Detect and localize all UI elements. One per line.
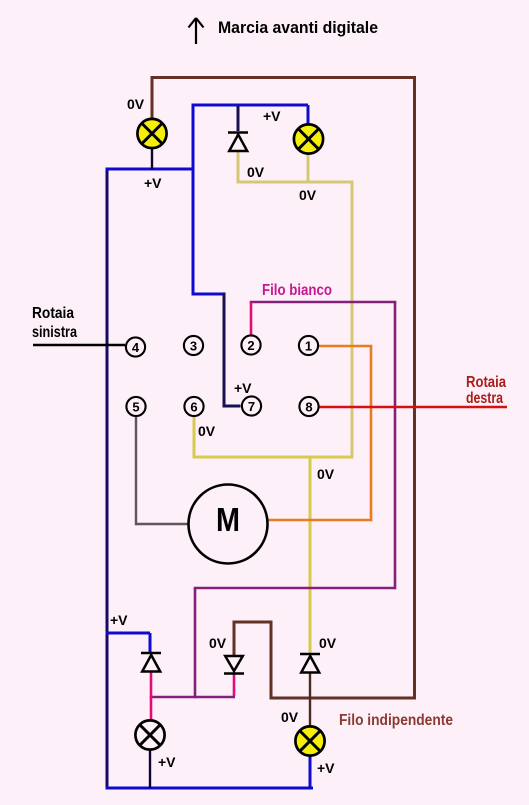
- wire brown top horizontal: [151, 76, 417, 79]
- svg-text:+V: +V: [263, 108, 281, 124]
- lamp L4 bottom-right: [295, 726, 324, 755]
- wire diode2 top stub: [149, 633, 152, 652]
- diode D3 middle pointing down: [224, 656, 244, 674]
- lamp L1 top-left: [137, 119, 166, 148]
- wire brown diode3 top stub: [233, 621, 236, 657]
- title arrow: [189, 18, 204, 44]
- pin 5: [126, 397, 145, 416]
- motor M: [189, 485, 268, 564]
- wire tan lamp2 bottom stub: [307, 155, 310, 182]
- wire purple middle horizontal: [194, 587, 395, 590]
- svg-text:2: 2: [247, 338, 254, 353]
- lamp L3 bottom-left white: [135, 720, 164, 749]
- pin 8: [299, 397, 318, 416]
- wire black rotaia sinistra: [33, 344, 125, 346]
- wire red rotaia destra: [319, 406, 507, 409]
- diode D4 bottom-right: [300, 654, 320, 673]
- lamp L2 top-middle: [294, 124, 323, 153]
- wire yellow pin6 vertical: [193, 417, 196, 459]
- pin 4: [126, 337, 145, 356]
- svg-text:0V: 0V: [319, 635, 337, 651]
- wire gray motor left horizontal: [136, 523, 189, 525]
- wire navy pin7 vertical: [223, 293, 226, 408]
- wire orange motor right horizontal: [267, 519, 372, 522]
- wire lamp2 top stub: [307, 105, 310, 124]
- svg-text:0V: 0V: [281, 709, 299, 725]
- svg-text:5: 5: [132, 399, 139, 414]
- wire lamp4 bottom stub: [309, 756, 312, 790]
- svg-text:+V: +V: [234, 380, 252, 396]
- wire deep pink diode2 to lamp3: [150, 672, 153, 721]
- wire tan right vertical: [351, 182, 354, 459]
- pin 2: [241, 335, 260, 354]
- wire brown right rail: [413, 76, 416, 700]
- wire bottom-left +V horizontal: [106, 632, 151, 635]
- svg-text:Rotaia: Rotaia: [32, 305, 74, 322]
- svg-text:0V: 0V: [317, 466, 335, 482]
- svg-text:0V: 0V: [299, 187, 317, 203]
- svg-text:destra: destra: [466, 390, 503, 407]
- wire brown lamp1 top riser: [151, 78, 154, 119]
- svg-text:3: 3: [190, 338, 197, 353]
- wire purple left vertical: [194, 588, 197, 698]
- svg-text:4: 4: [132, 340, 140, 355]
- svg-text:1: 1: [305, 338, 312, 353]
- wire lamp1 bottom stub: [151, 149, 153, 169]
- wire brown bottom horizontal: [270, 697, 415, 700]
- wire navy pin7 horizontal: [224, 405, 241, 408]
- wire lamp1 row: [106, 168, 195, 171]
- svg-text:+V: +V: [110, 612, 128, 628]
- wire purple bottom horizontal: [150, 696, 235, 699]
- wire purple filo bianco top horizontal: [250, 301, 397, 304]
- svg-text:Filo bianco: Filo bianco: [262, 282, 332, 299]
- wire navy diode1 top stub: [237, 106, 240, 131]
- wire lamp3 bottom stub: [149, 750, 151, 788]
- wire bottom rail: [106, 787, 314, 790]
- svg-text:Rotaia: Rotaia: [466, 374, 506, 391]
- wire tan diode1 bottom stub: [237, 152, 240, 184]
- pin 7: [242, 396, 261, 415]
- svg-text:0V: 0V: [198, 423, 216, 439]
- diode D2 bottom-left: [141, 653, 161, 672]
- svg-text:Filo indipendente: Filo indipendente: [339, 712, 453, 729]
- diode D1 top: [228, 133, 248, 152]
- svg-text:+V: +V: [158, 754, 176, 770]
- wire purple right vertical: [394, 302, 397, 589]
- wire left rail: [106, 168, 109, 790]
- wire vertical x193: [192, 104, 195, 296]
- svg-text:Marcia avanti digitale: Marcia avanti digitale: [218, 18, 378, 37]
- svg-text:sinistra: sinistra: [32, 324, 77, 341]
- wire yellow diode4 riser: [309, 457, 312, 654]
- wire orange vertical: [370, 346, 373, 521]
- svg-text:+V: +V: [144, 175, 162, 191]
- wire gray pin5 vertical: [135, 417, 137, 525]
- wire brown hook right vertical: [270, 622, 273, 700]
- pin 1: [299, 336, 318, 355]
- svg-text:0V: 0V: [127, 96, 145, 112]
- svg-text:0V: 0V: [247, 164, 265, 180]
- wire orange pin1 horizontal: [319, 345, 372, 348]
- pin 6: [184, 397, 203, 416]
- wire deep pink pin2 stub: [250, 302, 253, 336]
- wire dark brown: diode4 to lamp4: [309, 672, 311, 727]
- svg-text:7: 7: [248, 399, 255, 414]
- pin 3: [184, 336, 203, 355]
- svg-text:6: 6: [190, 399, 197, 414]
- svg-text:0V: 0V: [209, 635, 227, 651]
- wire tan 0V horizontal: [237, 181, 354, 184]
- wire blue jog horizontal: [192, 293, 223, 296]
- svg-text:+V: +V: [317, 760, 335, 776]
- wire yellow 0V horizontal: [193, 456, 353, 459]
- svg-text:8: 8: [305, 399, 312, 414]
- svg-text:M: M: [216, 501, 240, 538]
- wire top +V horizontal: [192, 104, 309, 107]
- wire deep pink diode3 bottom stub: [233, 674, 236, 696]
- wire brown hook top horizontal: [234, 621, 273, 624]
